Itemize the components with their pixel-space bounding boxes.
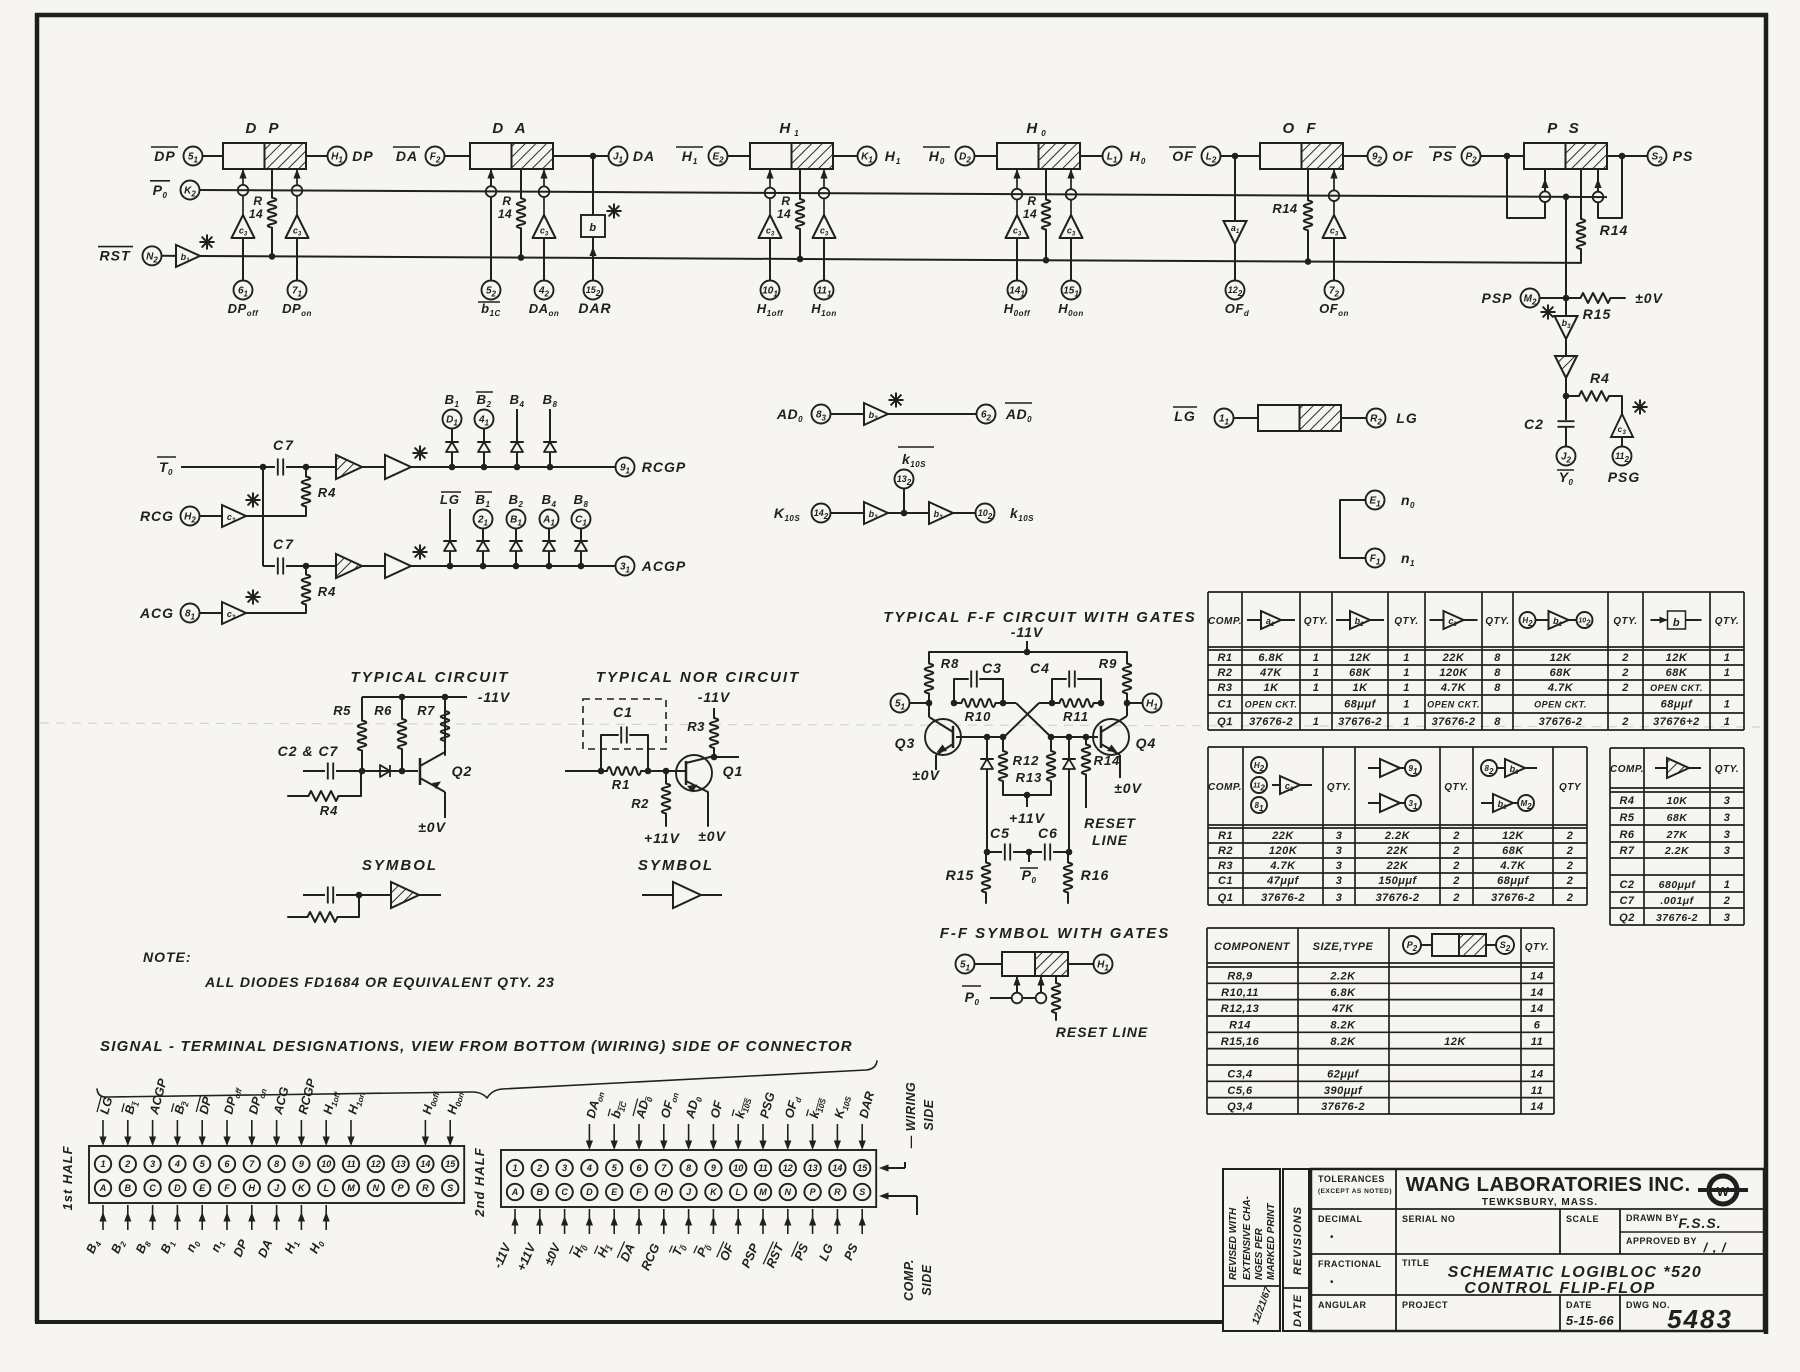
diode gate B1bar terminal 2-1 bbox=[474, 492, 493, 569]
svg-text:R5: R5 bbox=[333, 703, 351, 718]
svg-text:COMP.: COMP. bbox=[1208, 616, 1242, 627]
input terminal H<tspan font-size="8" dy="3">1</tspan> H1 bbox=[676, 147, 750, 167]
svg-text:14: 14 bbox=[1530, 987, 1543, 999]
output terminal PS bbox=[1607, 147, 1693, 166]
svg-text:14: 14 bbox=[1530, 1003, 1543, 1015]
svg-text:COMP.: COMP. bbox=[1610, 764, 1644, 775]
svg-text:R8: R8 bbox=[941, 656, 960, 671]
connector 1st half pin 11/M bbox=[343, 1090, 367, 1197]
svg-text:DA: DA bbox=[633, 148, 655, 164]
table 2 symbol headers bbox=[1251, 757, 1582, 813]
svg-text:15: 15 bbox=[857, 1163, 868, 1173]
capacitor C7 (lower) bbox=[263, 536, 309, 575]
connector 1st half pin 7/H bbox=[231, 1086, 269, 1259]
svg-text:680μμf: 680μμf bbox=[1659, 879, 1697, 891]
connector 1st half pin 3/C bbox=[133, 1077, 170, 1257]
svg-text:R3: R3 bbox=[1217, 682, 1232, 694]
connector 1st half title bbox=[60, 1145, 75, 1210]
gate leg b1c terminal 5-2 bbox=[478, 169, 501, 318]
svg-text:QTY.: QTY. bbox=[1394, 616, 1418, 627]
connector 2nd half pin 14/R bbox=[816, 1093, 853, 1263]
svg-text:Q1: Q1 bbox=[723, 763, 744, 779]
gate leg H1on terminal 11-1 bbox=[811, 169, 837, 318]
svg-text:3: 3 bbox=[1336, 845, 1343, 857]
svg-text:TEWKSBURY, MASS.: TEWKSBURY, MASS. bbox=[1482, 1197, 1598, 1208]
svg-text:R: R bbox=[422, 1183, 429, 1193]
terminal RCG H-2 with amplifier c3 bbox=[140, 493, 306, 527]
svg-text:R15: R15 bbox=[946, 867, 975, 883]
svg-text:±0V: ±0V bbox=[418, 819, 446, 835]
svg-text:R: R bbox=[253, 194, 262, 208]
svg-text:4.7K: 4.7K bbox=[1440, 682, 1467, 694]
svg-text:R1: R1 bbox=[1217, 652, 1232, 664]
net T0bar input bbox=[157, 457, 266, 477]
svg-text:1: 1 bbox=[1313, 716, 1320, 728]
svg-text:SIZE,TYPE: SIZE,TYPE bbox=[1313, 941, 1374, 953]
svg-text:+11V: +11V bbox=[644, 830, 681, 846]
ground 0V (Q4) bbox=[1114, 780, 1142, 796]
svg-text:RST: RST bbox=[100, 248, 131, 264]
svg-text:C5: C5 bbox=[990, 825, 1010, 841]
svg-text:37676-2: 37676-2 bbox=[1376, 892, 1420, 904]
F-F symbol gate inputs bbox=[962, 976, 1046, 1007]
gate leg H0off terminal 14-1 bbox=[1004, 169, 1031, 318]
svg-text:22K: 22K bbox=[1386, 860, 1409, 872]
drawn by cell bbox=[1626, 1213, 1722, 1231]
resistor R14 (H0) bbox=[1023, 169, 1050, 264]
gate leg OFon terminal 7-2 bbox=[1319, 169, 1349, 318]
svg-text:ACGP: ACGP bbox=[641, 558, 686, 574]
svg-text:S: S bbox=[447, 1183, 453, 1193]
F-F symbol block bbox=[956, 952, 1113, 976]
capacitor input (typical circuit) bbox=[303, 763, 418, 780]
svg-text:12K: 12K bbox=[1502, 830, 1524, 842]
svg-text:M: M bbox=[347, 1183, 355, 1193]
svg-text:DAR: DAR bbox=[578, 300, 611, 316]
svg-text:1: 1 bbox=[1724, 667, 1731, 679]
+11V bias bracket bbox=[1003, 792, 1051, 826]
svg-text:R4: R4 bbox=[1619, 795, 1634, 807]
output terminal H0 bbox=[1080, 147, 1146, 167]
PS set bracket wiring bbox=[1504, 153, 1551, 218]
svg-text:1: 1 bbox=[1403, 667, 1410, 679]
svg-text:R2: R2 bbox=[1217, 667, 1232, 679]
svg-text:37676-2: 37676-2 bbox=[1261, 892, 1305, 904]
-11V rail (typical circuit) bbox=[362, 689, 511, 705]
svg-text:QTY.: QTY. bbox=[1715, 616, 1739, 627]
svg-text:68μμf: 68μμf bbox=[1661, 699, 1694, 711]
svg-text:150μμf: 150μμf bbox=[1378, 875, 1417, 887]
resistor R14 (OF) bbox=[1272, 169, 1312, 265]
svg-text:NOTE:: NOTE: bbox=[143, 949, 192, 965]
resistor R14 (PS) bbox=[1577, 169, 1629, 263]
capacitor C7 (upper) bbox=[263, 437, 309, 476]
svg-text:10K: 10K bbox=[1667, 795, 1689, 807]
connector 1st half pin 5/E bbox=[183, 1095, 215, 1255]
wang logo bbox=[1698, 1176, 1748, 1204]
svg-text:14: 14 bbox=[498, 207, 512, 221]
svg-text:COMP.: COMP. bbox=[902, 1259, 916, 1301]
svg-text:C2 & C7: C2 & C7 bbox=[278, 743, 339, 759]
svg-text:L: L bbox=[735, 1187, 741, 1197]
svg-text:4.7K: 4.7K bbox=[1499, 860, 1526, 872]
svg-text:COMP.: COMP. bbox=[1208, 782, 1242, 793]
svg-text:C1: C1 bbox=[613, 704, 633, 720]
component table 1 bbox=[1208, 592, 1744, 730]
ground 0V (Q3) bbox=[912, 767, 940, 783]
svg-text:14: 14 bbox=[1530, 1069, 1543, 1081]
svg-text:R: R bbox=[1027, 194, 1036, 208]
svg-text:R4: R4 bbox=[318, 485, 337, 500]
svg-text:2: 2 bbox=[1566, 830, 1574, 842]
svg-text:11: 11 bbox=[346, 1159, 355, 1169]
net P0bar (F-F) bbox=[1020, 852, 1038, 885]
svg-text:R1: R1 bbox=[612, 777, 631, 792]
svg-text:1: 1 bbox=[1724, 699, 1731, 711]
svg-text:37676-2: 37676-2 bbox=[1432, 716, 1476, 728]
svg-text:/ , /: / , / bbox=[1702, 1240, 1726, 1255]
svg-text:14: 14 bbox=[249, 207, 263, 221]
svg-text:8: 8 bbox=[1494, 652, 1501, 664]
svg-text:PSP: PSP bbox=[1481, 290, 1512, 306]
company name bbox=[1406, 1173, 1691, 1208]
flip-flop block DA bbox=[470, 120, 553, 169]
resistor R9 bbox=[1099, 652, 1132, 703]
svg-text:S: S bbox=[859, 1187, 865, 1197]
terminal 5-1 (F-F) bbox=[891, 694, 933, 713]
svg-text:2: 2 bbox=[1621, 652, 1629, 664]
capacitor C4 bypass bbox=[1030, 660, 1101, 703]
svg-text:ALL DIODES FD1684 OR EQUIVALEN: ALL DIODES FD1684 OR EQUIVALENT QTY. 23 bbox=[204, 974, 555, 990]
svg-text:ACG: ACG bbox=[139, 605, 174, 621]
svg-text:2: 2 bbox=[1723, 895, 1731, 907]
svg-text:PS: PS bbox=[1433, 148, 1454, 164]
svg-text:Q3,4: Q3,4 bbox=[1227, 1101, 1253, 1113]
resistor R4 (PS) bbox=[1566, 370, 1622, 401]
transistor Q3 bbox=[895, 703, 961, 770]
svg-text:R3: R3 bbox=[1218, 860, 1233, 872]
resistor R15 to 0V bbox=[1566, 290, 1664, 322]
diode gate B4 bbox=[510, 392, 525, 470]
svg-text:37676+2: 37676+2 bbox=[1653, 716, 1700, 728]
svg-text:C6: C6 bbox=[1038, 825, 1058, 841]
svg-text:R1: R1 bbox=[1218, 830, 1233, 842]
svg-text:R14: R14 bbox=[1229, 1020, 1251, 1032]
connector 2nd half pin 9/K bbox=[694, 1099, 726, 1260]
svg-text:14: 14 bbox=[1023, 207, 1037, 221]
svg-text:R2: R2 bbox=[1218, 845, 1233, 857]
svg-text:F: F bbox=[224, 1183, 230, 1193]
svg-text:LG: LG bbox=[1174, 408, 1195, 424]
svg-text:37676-2: 37676-2 bbox=[1656, 912, 1698, 924]
svg-text:P S: P S bbox=[1547, 120, 1583, 137]
svg-text:37676-2: 37676-2 bbox=[1539, 716, 1583, 728]
svg-text:1: 1 bbox=[1724, 716, 1731, 728]
svg-text:D: D bbox=[586, 1187, 593, 1197]
input terminal DA DA bbox=[393, 147, 470, 166]
svg-text:H: H bbox=[249, 1183, 256, 1193]
svg-text:1: 1 bbox=[1403, 716, 1410, 728]
svg-text:3: 3 bbox=[562, 1163, 567, 1173]
svg-text:+11V: +11V bbox=[1009, 810, 1046, 826]
svg-text:8: 8 bbox=[1494, 667, 1501, 679]
svg-text:22K: 22K bbox=[1442, 652, 1465, 664]
svg-text:3: 3 bbox=[1724, 829, 1731, 841]
svg-text:10: 10 bbox=[321, 1159, 331, 1169]
svg-text:4: 4 bbox=[586, 1163, 592, 1173]
resistor R4 (lower) bbox=[302, 566, 337, 613]
resistor R15 (F-F) bbox=[946, 852, 991, 903]
terminal K10S 14-2 double buffer to k10s 10-2 bbox=[774, 502, 1034, 524]
resistor R7 bbox=[417, 697, 449, 755]
svg-text:11: 11 bbox=[1531, 1085, 1543, 1097]
svg-text:37676-2: 37676-2 bbox=[1249, 716, 1293, 728]
svg-text:(EXCEPT AS NOTED): (EXCEPT AS NOTED) bbox=[1318, 1188, 1392, 1195]
title block frame bbox=[1223, 1169, 1764, 1331]
svg-text:E: E bbox=[611, 1187, 618, 1197]
svg-text:R11: R11 bbox=[1063, 709, 1089, 724]
svg-text:R8,9: R8,9 bbox=[1227, 971, 1253, 983]
svg-text:1: 1 bbox=[1724, 652, 1731, 664]
hatched buffer (RCGP line) bbox=[306, 455, 362, 479]
svg-text:R14: R14 bbox=[1600, 222, 1629, 238]
svg-text:FRACTIONAL: FRACTIONAL bbox=[1318, 1259, 1382, 1269]
svg-text:RESET LINE: RESET LINE bbox=[1056, 1024, 1148, 1040]
connector 2nd half pin 8/J bbox=[670, 1094, 705, 1259]
svg-text:DATE: DATE bbox=[1566, 1300, 1592, 1310]
svg-text:9: 9 bbox=[711, 1163, 716, 1173]
svg-text:EXTENSIVE CHA-: EXTENSIVE CHA- bbox=[1242, 1195, 1253, 1280]
svg-text:±0V: ±0V bbox=[1114, 780, 1142, 796]
svg-text:B: B bbox=[537, 1187, 544, 1197]
svg-text:C1: C1 bbox=[1217, 699, 1232, 711]
svg-text:SIGNAL - TERMINAL DESIGNATIONS: SIGNAL - TERMINAL DESIGNATIONS, VIEW FRO… bbox=[100, 1038, 853, 1055]
svg-text:R16: R16 bbox=[1081, 867, 1110, 883]
gate leg DPoff terminal 6-1 bbox=[228, 169, 259, 318]
svg-text:2: 2 bbox=[1566, 860, 1574, 872]
connector 2nd half pin 1/A bbox=[491, 1160, 524, 1271]
ground 0V (NOR) bbox=[698, 828, 726, 844]
svg-text:COMPONENT: COMPONENT bbox=[1214, 941, 1291, 953]
svg-text:1: 1 bbox=[1403, 682, 1410, 694]
dwg no cell bbox=[1626, 1300, 1733, 1334]
resistor R6 bbox=[374, 697, 406, 771]
resistor R16 (F-F) bbox=[1064, 852, 1110, 903]
svg-text:NGES PER: NGES PER bbox=[1254, 1228, 1265, 1280]
svg-text:OPEN CKT.: OPEN CKT. bbox=[1245, 700, 1298, 710]
svg-text:22K: 22K bbox=[1271, 830, 1294, 842]
svg-text:12: 12 bbox=[783, 1163, 793, 1173]
terminal n0 E-1 bbox=[1340, 491, 1415, 559]
svg-text:R10: R10 bbox=[965, 709, 992, 724]
cross-coupling wires bbox=[1003, 703, 1052, 737]
connector 1st half pin 9/K bbox=[282, 1077, 319, 1257]
svg-text:6: 6 bbox=[1534, 1020, 1541, 1032]
svg-text:C3,4: C3,4 bbox=[1227, 1069, 1252, 1081]
svg-text:-11V: -11V bbox=[698, 689, 731, 705]
resistor R14 (F-F) bbox=[1082, 734, 1121, 808]
amplifier b3 (PS) bbox=[1541, 298, 1577, 339]
svg-text:C: C bbox=[561, 1187, 568, 1197]
svg-text:.001μf: .001μf bbox=[1660, 895, 1694, 907]
component table 4 bbox=[1207, 928, 1554, 1114]
svg-text:3: 3 bbox=[1336, 860, 1343, 872]
svg-text:R4: R4 bbox=[1590, 370, 1610, 386]
svg-text:8: 8 bbox=[1494, 682, 1501, 694]
wire RCGP bus bbox=[411, 466, 616, 468]
svg-text:D: D bbox=[174, 1183, 181, 1193]
svg-text:2: 2 bbox=[1566, 875, 1574, 887]
connector 2nd half body bbox=[501, 1150, 876, 1207]
svg-text:1st HALF: 1st HALF bbox=[60, 1145, 75, 1210]
svg-text:QTY: QTY bbox=[1559, 782, 1582, 793]
resistor R4 (upper) bbox=[302, 467, 337, 516]
svg-text:13: 13 bbox=[808, 1163, 818, 1173]
amplifier c3 with PSG terminal 11-2 bbox=[1608, 396, 1647, 485]
svg-text:C5,6: C5,6 bbox=[1227, 1085, 1253, 1097]
svg-text:LG: LG bbox=[440, 492, 460, 507]
svg-text:R6: R6 bbox=[1619, 829, 1634, 841]
svg-text:±0V: ±0V bbox=[1635, 290, 1663, 306]
svg-text:12K: 12K bbox=[1666, 652, 1688, 664]
svg-text:O F: O F bbox=[1283, 120, 1320, 137]
svg-text:3: 3 bbox=[1724, 912, 1731, 924]
svg-text:Q1: Q1 bbox=[1217, 716, 1233, 728]
diode gate B4 terminal A-1 bbox=[540, 492, 559, 569]
svg-text:2: 2 bbox=[1452, 830, 1460, 842]
svg-text:DRAWN BY: DRAWN BY bbox=[1626, 1213, 1679, 1223]
tolerances cell bbox=[1318, 1174, 1392, 1310]
svg-text:H: H bbox=[661, 1187, 668, 1197]
svg-text:14: 14 bbox=[777, 207, 791, 221]
capacitor C6 bbox=[1026, 825, 1073, 861]
svg-text:13: 13 bbox=[396, 1159, 406, 1169]
terminal AD0 8-3 buffer to AD0bar 6-2 bbox=[776, 393, 1032, 425]
diode gate (Q4 side) bbox=[1063, 734, 1075, 852]
svg-text:PROJECT: PROJECT bbox=[1402, 1300, 1448, 1310]
svg-text:R12,13: R12,13 bbox=[1221, 1003, 1259, 1015]
resistor R12 bbox=[999, 734, 1040, 795]
net P0bar rail bbox=[150, 181, 1607, 200]
connector 1st half pin 13/P bbox=[392, 1156, 408, 1196]
connector 2nd half pin 13/P bbox=[792, 1095, 828, 1262]
resistor R8 bbox=[925, 652, 960, 703]
svg-text:b: b bbox=[589, 222, 596, 234]
svg-text:RESET: RESET bbox=[1084, 815, 1136, 831]
svg-text:R15: R15 bbox=[1583, 306, 1612, 322]
svg-text:1: 1 bbox=[100, 1159, 105, 1169]
svg-text:ANGULAR: ANGULAR bbox=[1318, 1300, 1367, 1310]
svg-text:SERIAL NO: SERIAL NO bbox=[1402, 1214, 1455, 1224]
svg-text:PSG: PSG bbox=[1608, 469, 1641, 485]
hatched buffer (PS) bbox=[1555, 339, 1577, 378]
svg-text:14: 14 bbox=[1530, 971, 1543, 983]
svg-text:A: A bbox=[99, 1183, 107, 1193]
svg-text:15: 15 bbox=[445, 1159, 456, 1169]
svg-text:22K: 22K bbox=[1386, 845, 1409, 857]
comp side arrow bbox=[879, 1192, 934, 1301]
svg-text:PS: PS bbox=[1673, 148, 1694, 164]
svg-text:47K: 47K bbox=[1331, 1003, 1354, 1015]
svg-text:R: R bbox=[834, 1187, 841, 1197]
svg-text:DWG NO.: DWG NO. bbox=[1626, 1300, 1670, 1310]
diode gate (Q3 side) bbox=[981, 734, 993, 852]
svg-text:12: 12 bbox=[371, 1159, 381, 1169]
svg-text:3: 3 bbox=[1336, 875, 1343, 887]
connector 1st half body bbox=[89, 1146, 464, 1203]
svg-text:37676-2: 37676-2 bbox=[1338, 716, 1382, 728]
connector 2nd half pin 7/H bbox=[638, 1090, 680, 1273]
svg-text:C4: C4 bbox=[1030, 660, 1050, 676]
input terminal H<tspan font-size="8" dy="3">0</tspan> H0 bbox=[923, 147, 997, 167]
svg-text:C3: C3 bbox=[982, 660, 1002, 676]
svg-text:SCHEMATIC LOGIBLOC *520: SCHEMATIC LOGIBLOC *520 bbox=[1448, 1264, 1703, 1281]
component table 3 bbox=[1610, 748, 1744, 925]
flip-flop block LG bbox=[1173, 405, 1418, 431]
svg-text:2: 2 bbox=[1452, 892, 1460, 904]
svg-text:TITLE: TITLE bbox=[1402, 1258, 1430, 1268]
svg-text:3: 3 bbox=[1336, 892, 1343, 904]
date cell bbox=[1566, 1300, 1615, 1328]
svg-text:±0V: ±0V bbox=[912, 767, 940, 783]
svg-text:DECIMAL: DECIMAL bbox=[1318, 1214, 1363, 1224]
resistor R14 (H1) bbox=[777, 169, 804, 262]
svg-text:R: R bbox=[781, 194, 790, 208]
wire to C2/R4 node bbox=[1563, 378, 1570, 420]
svg-text:D A: D A bbox=[492, 120, 529, 137]
symbol buffer triangle bbox=[642, 882, 722, 908]
svg-text:R6: R6 bbox=[374, 703, 392, 718]
resistor R10 bbox=[951, 699, 1007, 724]
resistor R14 (DP) bbox=[249, 169, 276, 260]
diode gate B1 terminal D-1 bbox=[443, 392, 462, 470]
svg-text:10: 10 bbox=[733, 1163, 743, 1173]
svg-text:REVISED WITH: REVISED WITH bbox=[1228, 1207, 1239, 1280]
svg-text:QTY.: QTY. bbox=[1304, 616, 1328, 627]
svg-text:— WIRING: — WIRING bbox=[904, 1082, 918, 1150]
svg-text:OPEN CKT.: OPEN CKT. bbox=[1534, 700, 1587, 710]
svg-text:R3: R3 bbox=[687, 719, 705, 734]
svg-text:14: 14 bbox=[832, 1163, 842, 1173]
svg-text:±0V: ±0V bbox=[698, 828, 726, 844]
svg-text:R7: R7 bbox=[1619, 845, 1634, 857]
svg-text:2.2K: 2.2K bbox=[1384, 830, 1411, 842]
svg-text:37676-2: 37676-2 bbox=[1321, 1101, 1365, 1113]
connector 2nd half pin 2/B bbox=[514, 1160, 548, 1274]
wire junction to lower C7 bbox=[262, 467, 264, 566]
svg-text:MARKED PRINT: MARKED PRINT bbox=[1266, 1202, 1277, 1280]
svg-text:SIDE: SIDE bbox=[922, 1099, 936, 1130]
amplifier (RCGP line) bbox=[362, 446, 427, 479]
wire Q3 base line bbox=[956, 736, 1004, 738]
svg-text:C2: C2 bbox=[1619, 879, 1634, 891]
flip-flop block H1 bbox=[750, 120, 833, 169]
connector 1st half pin 1/A bbox=[83, 1095, 115, 1256]
capacitor C1 dashed box bbox=[583, 699, 666, 749]
svg-text:47K: 47K bbox=[1259, 667, 1282, 679]
svg-text:1: 1 bbox=[1313, 682, 1320, 694]
svg-text:C1: C1 bbox=[1218, 875, 1233, 887]
svg-text:TYPICAL NOR CIRCUIT: TYPICAL NOR CIRCUIT bbox=[596, 669, 800, 686]
svg-text:2: 2 bbox=[1566, 892, 1574, 904]
svg-text:9: 9 bbox=[299, 1159, 304, 1169]
svg-text:2: 2 bbox=[1566, 845, 1574, 857]
amplifier (ACGP line) bbox=[362, 545, 427, 578]
gate leg H1off terminal 10-1 bbox=[757, 169, 784, 318]
terminal ACGP 3-1 bbox=[616, 557, 687, 576]
transistor Q1 bbox=[666, 754, 743, 826]
svg-text:-11V: -11V bbox=[1011, 624, 1044, 640]
